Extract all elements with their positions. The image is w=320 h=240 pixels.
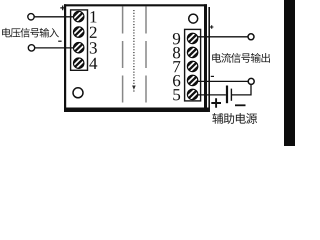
battery polarity + xyxy=(211,98,221,108)
output terminal circle - xyxy=(248,78,254,84)
transmitter body outline right xyxy=(204,4,207,112)
screw terminal 6 xyxy=(187,75,198,86)
screw terminal 3 xyxy=(73,42,84,53)
input terminal block xyxy=(71,10,88,70)
screw terminal 4 xyxy=(73,58,84,69)
terminal label 6 xyxy=(173,75,180,86)
screw terminal 9 xyxy=(187,33,198,44)
terminal label 9 xyxy=(173,33,180,44)
dashed separator line left xyxy=(122,7,124,108)
transmitter body outline bottom xyxy=(64,107,209,112)
terminal label 1 xyxy=(90,11,96,22)
wire: terminal 5 to battery xyxy=(198,94,226,96)
terminal label 8 xyxy=(173,47,180,58)
label: voltage signal input xyxy=(2,28,11,37)
polarity - (output) xyxy=(211,75,214,77)
label: auxiliary power supply xyxy=(212,113,223,124)
polarity - (input) xyxy=(58,40,61,42)
transmitter body outline left xyxy=(64,4,66,112)
dark background band (right edge) xyxy=(284,0,295,146)
body shadow right xyxy=(208,7,210,112)
wire: battery to output - node xyxy=(232,85,251,95)
output terminal circle + xyxy=(248,34,254,40)
label: current signal output xyxy=(212,53,221,63)
screw terminal 7 xyxy=(187,61,198,72)
terminal label 5 xyxy=(173,89,180,100)
terminal label 3 xyxy=(90,42,97,53)
transmitter body xyxy=(64,4,207,108)
terminal label 2 xyxy=(90,27,97,38)
input terminal circle - xyxy=(28,45,34,51)
transmitter body outline top xyxy=(64,4,207,6)
screw terminal 5 xyxy=(187,89,198,100)
signal flow arrow (dotted, pointing down) xyxy=(133,10,135,86)
wire: terminal 9 to output + xyxy=(198,36,248,38)
wire: input - to terminal 3 xyxy=(35,47,74,49)
polarity + (input) xyxy=(60,6,65,11)
screw terminal 1 xyxy=(73,11,84,22)
battery negative plate (short) xyxy=(230,89,232,101)
battery positive plate (long) xyxy=(226,86,228,104)
output terminal block xyxy=(185,29,201,101)
battery polarity - xyxy=(235,104,246,106)
screw terminal 2 xyxy=(73,27,84,38)
screw terminal 8 xyxy=(187,47,198,58)
dashed separator line right xyxy=(145,7,147,108)
terminal label 7 xyxy=(173,61,180,72)
input terminal circle + xyxy=(28,14,34,20)
mounting hole bottom-left xyxy=(73,88,83,98)
wire: input + to terminal 1 xyxy=(34,16,73,18)
terminal label 4 xyxy=(89,58,97,69)
wire: terminal 6 to output - xyxy=(198,80,248,82)
polarity + (output) xyxy=(210,25,213,28)
mounting hole top-right xyxy=(189,14,198,23)
